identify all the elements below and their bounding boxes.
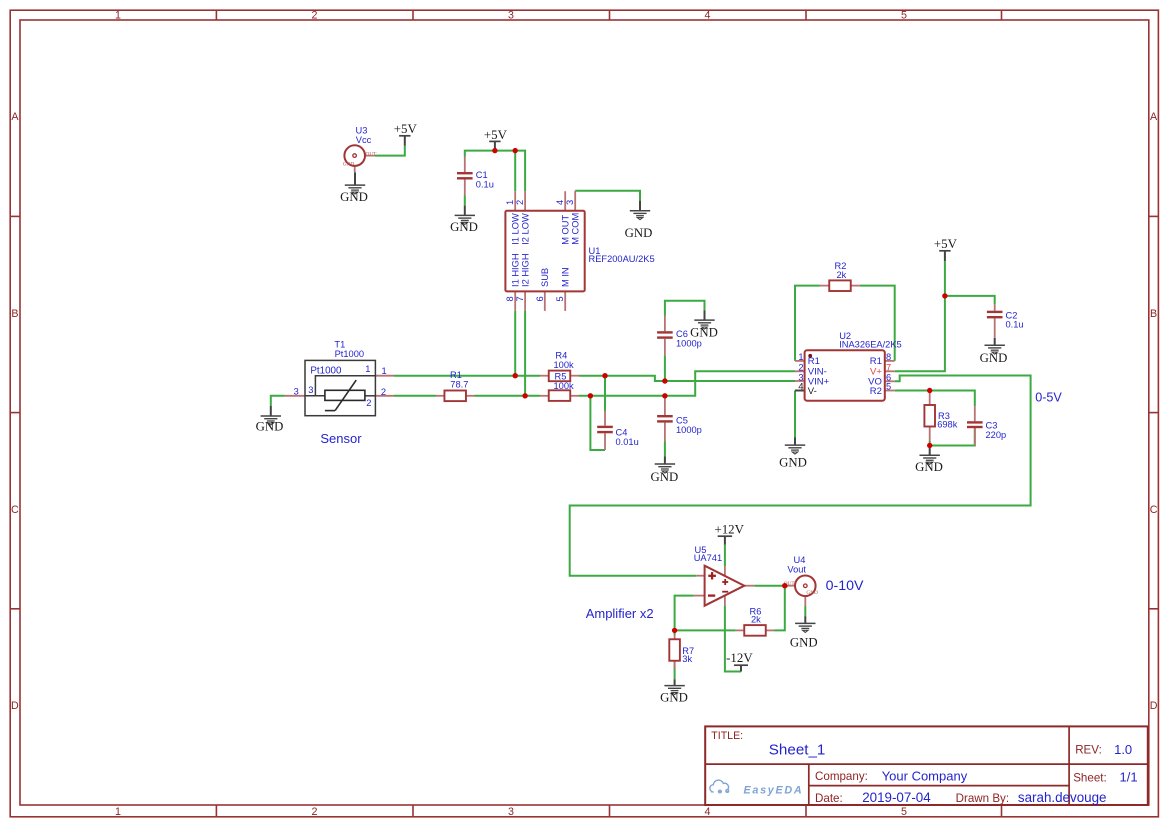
svg-text:3k: 3k [682,654,692,664]
svg-text:Pt1000: Pt1000 [335,349,364,359]
svg-text:R4: R4 [555,351,567,361]
svg-text:Your Company: Your Company [882,769,968,784]
svg-text:GND: GND [450,220,478,234]
svg-text:R2: R2 [870,386,882,397]
svg-text:+5V: +5V [394,122,418,136]
svg-text:REF200AU/2K5: REF200AU/2K5 [589,254,655,264]
svg-text:5: 5 [901,10,907,22]
svg-text:I2 LOW: I2 LOW [521,213,531,245]
svg-text:5: 5 [555,296,565,301]
svg-text:0-5V: 0-5V [1035,390,1062,404]
svg-text:1.0: 1.0 [1114,742,1132,757]
svg-text:3: 3 [565,200,575,205]
svg-text:6: 6 [535,296,545,301]
svg-text:8: 8 [505,296,515,301]
svg-text:1: 1 [798,352,803,362]
svg-text:2: 2 [515,200,525,205]
svg-text:78.7: 78.7 [450,380,468,390]
svg-text:4: 4 [555,200,565,205]
svg-text:698k: 698k [937,420,958,430]
svg-text:100k: 100k [554,360,575,370]
svg-text:+5V: +5V [934,237,958,251]
svg-text:1000p: 1000p [676,339,702,349]
svg-text:1: 1 [115,10,121,22]
svg-text:0.1u: 0.1u [1006,320,1024,330]
svg-text:M OUT: M OUT [561,215,571,245]
svg-text:V-: V- [808,386,817,397]
svg-text:2: 2 [366,398,371,408]
svg-text:4: 4 [705,806,711,818]
svg-text:I1 LOW: I1 LOW [511,213,521,245]
svg-text:GND: GND [651,470,679,484]
svg-text:M COM: M COM [571,213,581,245]
svg-text:INA326EA/2K5: INA326EA/2K5 [839,339,902,349]
svg-text:D: D [1150,700,1158,712]
svg-text:Amplifier x2: Amplifier x2 [586,606,654,621]
svg-text:REV:: REV: [1075,744,1102,757]
svg-text:3: 3 [294,386,299,396]
svg-text:7: 7 [515,296,525,301]
svg-text:R5: R5 [555,372,567,382]
svg-text:B: B [1150,308,1157,320]
svg-text:C1: C1 [476,170,488,180]
svg-text:R1: R1 [870,356,882,367]
svg-text:GND: GND [256,420,284,434]
svg-text:2: 2 [381,387,386,397]
svg-text:Sensor: Sensor [320,431,362,446]
svg-text:C: C [1150,504,1158,516]
svg-text:1000p: 1000p [676,425,702,435]
svg-text:Drawn By:: Drawn By: [956,792,1009,805]
svg-text:4: 4 [705,10,711,22]
svg-text:2: 2 [312,806,318,818]
svg-text:TITLE:: TITLE: [711,730,743,742]
svg-text:8: 8 [886,352,891,362]
svg-text:0.01u: 0.01u [616,437,639,447]
svg-text:1: 1 [365,364,370,374]
svg-text:Pt1000: Pt1000 [310,366,342,377]
svg-text:1: 1 [115,806,121,818]
svg-text:B: B [11,308,18,320]
svg-text:+5V: +5V [484,128,508,142]
svg-text:R1: R1 [808,356,820,367]
svg-text:EasyEDA: EasyEDA [744,785,804,797]
svg-text:1: 1 [382,366,387,376]
svg-text:I1 HIGH: I1 HIGH [511,253,521,287]
svg-text:Vout: Vout [787,565,806,575]
svg-text:2: 2 [798,362,803,372]
svg-text:C6: C6 [676,329,688,339]
svg-text:C5: C5 [676,415,688,425]
svg-text:GND: GND [980,351,1008,365]
svg-text:-12V: -12V [726,651,753,665]
svg-text:Vcc: Vcc [356,135,372,145]
svg-text:GND: GND [790,636,818,650]
svg-text:M IN: M IN [561,267,571,287]
svg-text:GND: GND [779,456,807,470]
svg-text:Sheet:: Sheet: [1073,772,1107,785]
svg-text:1: 1 [505,200,515,205]
svg-text:100k: 100k [554,381,575,391]
svg-text:C4: C4 [616,428,628,438]
svg-text:4: 4 [798,382,803,392]
svg-text:0-10V: 0-10V [826,578,864,594]
svg-text:Sheet_1: Sheet_1 [769,742,826,759]
svg-text:A: A [11,111,19,123]
svg-text:U3: U3 [356,125,368,135]
svg-text:Date:: Date: [815,792,843,805]
svg-text:2k: 2k [837,270,847,280]
svg-text:GND: GND [915,460,943,474]
svg-text:GND: GND [343,161,355,167]
svg-text:3: 3 [508,806,514,818]
svg-text:220p: 220p [986,430,1007,440]
svg-text:GND: GND [625,226,653,240]
svg-text:GND: GND [806,590,818,596]
svg-text:UA741: UA741 [694,553,722,563]
svg-text:sarah.devouge: sarah.devouge [1018,790,1107,805]
svg-text:+12V: +12V [714,522,744,536]
svg-text:GND: GND [690,326,718,340]
svg-text:7: 7 [886,362,891,372]
svg-text:5: 5 [886,382,891,392]
svg-text:OUT: OUT [366,151,378,157]
svg-text:A: A [1150,111,1158,123]
svg-text:SUB: SUB [540,268,550,287]
svg-text:GND: GND [660,691,688,705]
svg-text:2019-07-04: 2019-07-04 [862,790,931,805]
svg-text:1/1: 1/1 [1120,770,1138,785]
svg-text:0.1u: 0.1u [476,179,494,189]
svg-text:3: 3 [508,10,514,22]
svg-text:3: 3 [308,385,313,395]
svg-text:D: D [11,700,19,712]
svg-text:5: 5 [901,806,907,818]
svg-text:C: C [11,504,19,516]
svg-text:2k: 2k [751,614,761,624]
svg-text:Company:: Company: [815,770,868,783]
svg-text:2: 2 [312,10,318,22]
svg-text:C3: C3 [986,421,998,431]
svg-text:I2 HIGH: I2 HIGH [521,253,531,287]
svg-text:GND: GND [340,190,368,204]
